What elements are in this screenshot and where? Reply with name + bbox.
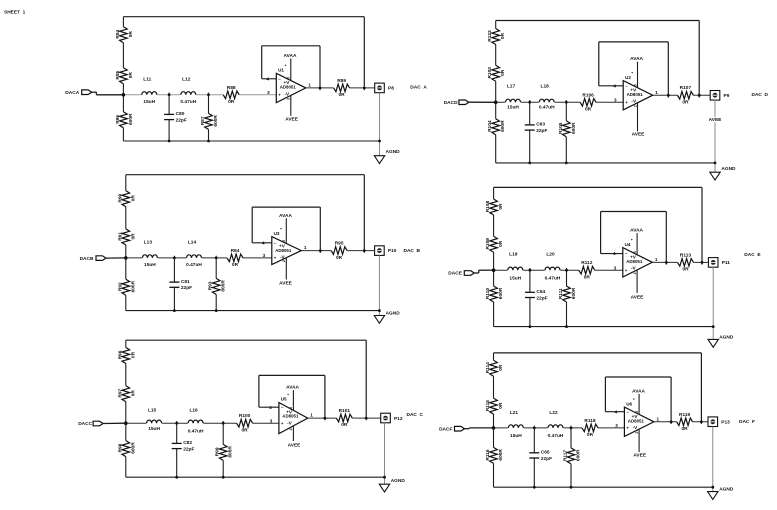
svg-text:R92: R92: [117, 282, 123, 291]
svg-text:R101: R101: [339, 408, 351, 414]
svg-text:4: 4: [269, 405, 272, 410]
svg-text:C65: C65: [541, 450, 550, 456]
svg-text:22pF: 22pF: [536, 295, 547, 301]
svg-text:600R: 600R: [221, 280, 227, 292]
svg-text:+: +: [278, 93, 281, 98]
svg-text:0R: 0R: [498, 203, 504, 210]
svg-text:0R: 0R: [130, 195, 136, 202]
svg-text:3: 3: [267, 90, 270, 95]
svg-text:4: 4: [267, 76, 270, 81]
svg-text:R93: R93: [208, 281, 214, 290]
svg-text:U1: U1: [278, 68, 284, 73]
svg-text:600R: 600R: [500, 120, 506, 132]
svg-text:R86: R86: [115, 115, 121, 124]
svg-text:R107: R107: [680, 85, 692, 91]
svg-text:DACA: DACA: [65, 90, 79, 96]
svg-text:0R: 0R: [339, 92, 346, 98]
svg-text:22pF: 22pF: [176, 117, 187, 123]
svg-text:0R: 0R: [130, 390, 136, 397]
svg-text:L18: L18: [541, 83, 550, 89]
svg-text:0R: 0R: [682, 100, 689, 106]
svg-text:C63: C63: [536, 122, 545, 128]
svg-text:L11: L11: [143, 77, 151, 83]
svg-text:AD8051: AD8051: [280, 85, 297, 90]
svg-text:DAC F: DAC F: [739, 419, 755, 425]
svg-text:−: −: [626, 409, 629, 414]
svg-text:R84: R84: [115, 29, 121, 38]
svg-text:DAC A: DAC A: [410, 85, 427, 91]
svg-text:U2: U2: [625, 75, 631, 80]
svg-text:0.47uH: 0.47uH: [188, 429, 204, 435]
svg-text:P10: P10: [388, 248, 397, 254]
svg-text:AGND: AGND: [719, 486, 734, 492]
svg-text:P8: P8: [388, 86, 394, 92]
svg-text:R90: R90: [117, 193, 123, 202]
svg-text:R96: R96: [117, 350, 123, 359]
svg-text:600R: 600R: [130, 280, 136, 292]
svg-text:R122: R122: [487, 30, 493, 42]
svg-text:AGND: AGND: [391, 478, 406, 484]
svg-text:0R: 0R: [585, 107, 592, 113]
svg-text:4: 4: [613, 83, 616, 88]
svg-text:0.47uH: 0.47uH: [539, 105, 555, 111]
svg-text:DAC E: DAC E: [744, 252, 761, 258]
svg-text:5: 5: [289, 407, 293, 409]
svg-text:R117: R117: [563, 450, 569, 462]
svg-text:1: 1: [657, 416, 660, 421]
svg-text:L21: L21: [510, 410, 519, 416]
svg-text:AVAA: AVAA: [630, 228, 643, 234]
svg-text:L14: L14: [188, 239, 197, 245]
svg-text:1: 1: [310, 413, 313, 418]
svg-text:U4: U4: [625, 242, 631, 247]
svg-text:AVEE: AVEE: [631, 295, 645, 301]
svg-text:15uH: 15uH: [148, 426, 160, 432]
svg-text:4: 4: [615, 409, 618, 414]
svg-text:R95: R95: [335, 241, 344, 247]
svg-text:L16: L16: [189, 407, 198, 413]
svg-text:P13: P13: [721, 419, 730, 425]
svg-text:AD8051: AD8051: [627, 92, 644, 97]
svg-text:600R: 600R: [576, 449, 582, 461]
svg-text:0R: 0R: [498, 364, 504, 371]
svg-text:AVEE: AVEE: [288, 443, 302, 449]
svg-text:0R: 0R: [500, 69, 506, 76]
svg-text:R88: R88: [227, 85, 236, 91]
svg-text:AGND: AGND: [719, 334, 734, 340]
svg-text:DAC B: DAC B: [404, 248, 421, 254]
svg-text:L20: L20: [546, 252, 555, 258]
svg-text:DACD: DACD: [444, 100, 458, 106]
svg-text:15uH: 15uH: [510, 433, 522, 439]
svg-text:L12: L12: [182, 77, 191, 83]
svg-text:L17: L17: [507, 83, 516, 89]
svg-text:+: +: [274, 256, 277, 261]
svg-text:L15: L15: [148, 407, 157, 413]
svg-text:R94: R94: [231, 248, 240, 254]
svg-text:0R: 0R: [584, 274, 591, 280]
svg-text:+: +: [625, 100, 628, 105]
svg-text:−: −: [625, 251, 628, 256]
svg-text:3: 3: [615, 423, 618, 428]
svg-text:+: +: [625, 268, 628, 273]
svg-text:2: 2: [635, 432, 639, 434]
svg-text:600R: 600R: [228, 446, 234, 458]
svg-text:R116: R116: [485, 449, 491, 461]
svg-text:P9: P9: [724, 93, 730, 99]
svg-text:5: 5: [635, 411, 639, 413]
svg-text:R119: R119: [679, 412, 691, 418]
svg-text:15uH: 15uH: [509, 276, 521, 282]
svg-text:−: −: [281, 405, 284, 410]
svg-text:L13: L13: [144, 239, 153, 245]
svg-text:0R: 0R: [682, 267, 689, 273]
svg-text:600R: 600R: [571, 287, 577, 299]
svg-text:2: 2: [287, 98, 291, 100]
svg-text:R111: R111: [558, 288, 564, 299]
svg-text:R115: R115: [485, 400, 491, 412]
svg-text:3: 3: [263, 253, 266, 258]
svg-text:+: +: [626, 426, 629, 431]
svg-text:0R: 0R: [500, 32, 506, 39]
svg-text:0R: 0R: [498, 240, 504, 247]
svg-text:0R: 0R: [128, 31, 134, 38]
svg-text:DACB: DACB: [80, 256, 94, 262]
svg-text:R91: R91: [117, 232, 123, 241]
svg-text:R85: R85: [115, 70, 121, 79]
svg-text:−: −: [278, 76, 281, 81]
svg-text:AVEE: AVEE: [279, 281, 293, 287]
svg-text:DACC: DACC: [78, 421, 92, 427]
svg-text:R108: R108: [485, 200, 491, 212]
svg-text:AD8051: AD8051: [626, 259, 643, 264]
svg-text:AD8051: AD8051: [282, 414, 299, 419]
svg-text:0R: 0R: [130, 233, 136, 240]
svg-text:1: 1: [304, 245, 307, 250]
svg-text:5: 5: [633, 251, 637, 253]
svg-text:DAC D: DAC D: [752, 92, 769, 98]
svg-text:600R: 600R: [213, 115, 219, 127]
svg-text:AVAA: AVAA: [632, 388, 645, 394]
svg-text:5: 5: [287, 77, 291, 79]
svg-text:R98: R98: [117, 443, 123, 452]
svg-text:R109: R109: [485, 238, 491, 250]
svg-text:22pF: 22pF: [541, 456, 552, 462]
svg-text:AVEE: AVEE: [632, 132, 646, 138]
svg-text:4: 4: [613, 251, 616, 256]
svg-text:C81: C81: [181, 279, 190, 285]
svg-text:+: +: [281, 421, 284, 426]
svg-text:AD8051: AD8051: [275, 248, 292, 253]
svg-text:AVAA: AVAA: [286, 385, 299, 391]
svg-text:600R: 600R: [571, 122, 577, 134]
svg-text:0.47uH: 0.47uH: [186, 262, 202, 268]
svg-text:0R: 0R: [128, 72, 134, 79]
svg-text:P11: P11: [722, 260, 731, 266]
svg-text:1: 1: [655, 257, 658, 262]
svg-text:4: 4: [262, 240, 265, 245]
svg-text:0R: 0R: [682, 426, 689, 432]
svg-text:0R: 0R: [336, 255, 343, 261]
svg-text:2: 2: [282, 260, 286, 262]
svg-text:15uH: 15uH: [507, 105, 519, 111]
svg-text:AVAA: AVAA: [279, 213, 292, 219]
svg-text:2: 2: [633, 105, 637, 107]
svg-text:1: 1: [308, 83, 311, 88]
svg-text:R87: R87: [200, 116, 206, 125]
svg-text:−: −: [274, 240, 277, 245]
svg-text:22pF: 22pF: [183, 446, 194, 452]
svg-text:0R: 0R: [228, 99, 235, 105]
svg-text:0R: 0R: [587, 432, 594, 438]
svg-text:DACF: DACF: [439, 426, 452, 432]
svg-text:R89: R89: [337, 78, 346, 84]
svg-text:600R: 600R: [498, 287, 504, 299]
svg-text:L22: L22: [549, 410, 558, 416]
svg-text:0.47uH: 0.47uH: [180, 99, 196, 105]
svg-text:AVAA: AVAA: [630, 56, 643, 62]
svg-text:U6: U6: [626, 401, 632, 406]
svg-text:R97: R97: [117, 388, 123, 397]
svg-text:0R: 0R: [130, 351, 136, 358]
svg-text:SHEET 1: SHEET 1: [4, 10, 26, 16]
svg-text:15uH: 15uH: [144, 262, 156, 268]
svg-text:AGND: AGND: [386, 149, 401, 155]
svg-text:L19: L19: [509, 252, 518, 258]
svg-text:−: −: [625, 83, 628, 88]
svg-text:DACE: DACE: [448, 271, 462, 277]
svg-text:AVEE: AVEE: [633, 453, 647, 459]
svg-text:DAC C: DAC C: [407, 412, 424, 418]
svg-text:AGND: AGND: [721, 166, 736, 172]
svg-text:R106: R106: [582, 92, 594, 98]
svg-text:0R: 0R: [341, 422, 348, 428]
svg-text:0R: 0R: [242, 427, 249, 433]
svg-text:AVEE: AVEE: [285, 116, 299, 122]
svg-text:AVEE: AVEE: [709, 117, 723, 123]
svg-text:0.47uH: 0.47uH: [548, 433, 564, 439]
svg-text:0R: 0R: [498, 402, 504, 409]
svg-text:2: 2: [633, 272, 637, 274]
svg-text:2: 2: [289, 428, 293, 430]
svg-text:22pF: 22pF: [536, 128, 547, 134]
svg-text:AD8051: AD8051: [628, 418, 645, 423]
svg-text:R104: R104: [487, 120, 493, 132]
svg-text:AGND: AGND: [386, 311, 401, 317]
svg-text:C82: C82: [183, 440, 192, 446]
svg-text:5: 5: [282, 240, 286, 242]
svg-text:0.47uH: 0.47uH: [545, 276, 561, 282]
svg-text:600R: 600R: [128, 113, 134, 125]
svg-text:3: 3: [270, 418, 273, 423]
svg-text:1: 1: [655, 90, 658, 95]
svg-text:R110: R110: [485, 288, 491, 300]
svg-text:R114: R114: [485, 362, 491, 374]
svg-text:R118: R118: [584, 418, 596, 424]
svg-text:C64: C64: [536, 289, 545, 295]
svg-text:3: 3: [614, 97, 617, 102]
svg-text:R105: R105: [558, 122, 564, 134]
svg-text:3: 3: [614, 265, 617, 270]
svg-text:R112: R112: [581, 260, 593, 266]
svg-text:15uH: 15uH: [143, 99, 155, 105]
svg-text:U5: U5: [281, 397, 287, 402]
svg-text:22pF: 22pF: [181, 285, 192, 291]
svg-text:U3: U3: [274, 231, 280, 236]
svg-text:R99: R99: [215, 447, 221, 456]
svg-text:5: 5: [633, 84, 637, 86]
svg-text:0R: 0R: [232, 262, 239, 268]
svg-text:600R: 600R: [130, 442, 136, 454]
svg-text:600R: 600R: [498, 449, 504, 461]
svg-text:R103: R103: [487, 67, 493, 79]
svg-text:C80: C80: [176, 111, 185, 117]
svg-text:R100: R100: [239, 413, 251, 419]
svg-text:AVAA: AVAA: [284, 53, 297, 59]
svg-text:R113: R113: [680, 252, 692, 258]
svg-text:P12: P12: [394, 416, 403, 422]
